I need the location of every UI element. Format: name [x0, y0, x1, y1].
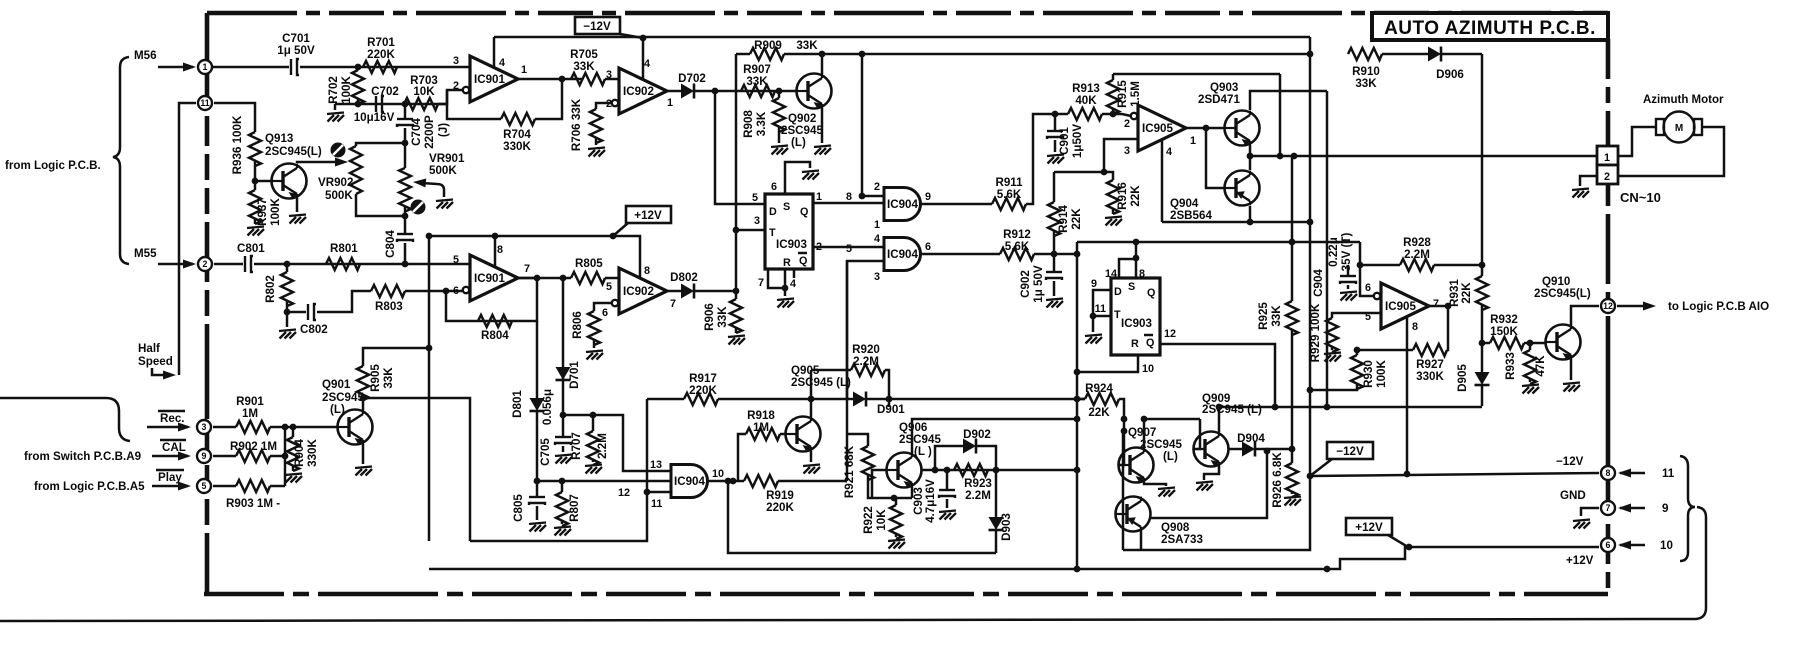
IC903a S pin loop to ground [785, 162, 810, 194]
AND gate IC904 (a) [846, 181, 931, 231]
svg-text:+12V: +12V [1566, 554, 1594, 567]
ground below R802 [286, 312, 289, 327]
svg-text:33K: 33K [1270, 305, 1283, 327]
svg-text:100K: 100K [1375, 360, 1388, 388]
wire motor to CN-10 pin2 [1618, 127, 1724, 176]
svg-text:R915: R915 [1116, 80, 1129, 108]
Q906 collector wire [912, 419, 1077, 453]
node 12 [1601, 299, 1615, 313]
svg-text:1M: 1M [242, 407, 258, 420]
svg-text:R914: R914 [1057, 205, 1070, 233]
vertical x470 from Q901 collector wire [363, 398, 470, 541]
svg-text:2: 2 [203, 259, 208, 269]
arrow half speed [152, 368, 170, 375]
arrow into node 2 [158, 263, 193, 266]
svg-text:5: 5 [202, 481, 207, 491]
svg-text:R902 1M: R902 1M [230, 440, 277, 453]
bus y238 [1077, 241, 1360, 244]
ground at CN-10 pin2 [1580, 176, 1597, 186]
svg-text:33K: 33K [716, 306, 729, 328]
svg-text:IC902: IC902 [623, 85, 654, 98]
svg-text:R707: R707 [570, 432, 583, 460]
svg-text:5.6K: 5.6K [997, 188, 1022, 201]
svg-text:R: R [1131, 338, 1139, 350]
capacitor C805 [536, 481, 539, 497]
node 7 [1601, 501, 1615, 515]
transistor Q905 [786, 417, 821, 453]
capacitor C702 [376, 96, 384, 112]
svg-text:6: 6 [925, 241, 931, 253]
svg-text:AUTO AZIMUTH P.C.B.: AUTO AZIMUTH P.C.B. [1384, 18, 1596, 39]
resistor R702 [357, 67, 360, 70]
svg-text:(L): (L) [791, 136, 806, 149]
svg-text:CN~10: CN~10 [1620, 190, 1661, 205]
capacitor C704 [404, 104, 407, 119]
svg-text:12: 12 [618, 487, 630, 499]
resistor R924 [1077, 398, 1085, 401]
-12V rail to node 8 [1310, 473, 1599, 476]
svg-text:0.056μ: 0.056μ [541, 389, 554, 425]
output wire IC902a [667, 90, 681, 93]
capacitor C902 [1051, 251, 1058, 258]
svg-text:R933: R933 [1504, 352, 1517, 380]
svg-text:R916: R916 [1116, 182, 1129, 210]
svg-text:500K: 500K [325, 189, 353, 202]
diode D905 [1475, 372, 1490, 385]
svg-text:4: 4 [1166, 146, 1172, 158]
svg-text:2: 2 [1124, 118, 1130, 130]
T input wire from R909/D802 junction vertical [735, 54, 738, 299]
resistor R806 [594, 303, 612, 311]
wire y407 to D905 [1219, 406, 1482, 409]
+12V supply label box right [1346, 518, 1408, 547]
svg-text:10: 10 [1660, 539, 1673, 552]
svg-text:7: 7 [1433, 298, 1439, 310]
transistor Q910 [1546, 325, 1581, 361]
svg-text:R909: R909 [754, 39, 782, 52]
svg-text:10μ16V: 10μ16V [354, 111, 395, 124]
svg-text:10: 10 [1142, 363, 1154, 375]
svg-text:GND: GND [1560, 489, 1586, 502]
+12V rail bottom [429, 547, 1599, 569]
IC905b output [1429, 305, 1448, 308]
border left dash-dot [205, 13, 210, 594]
svg-text:IC901: IC901 [474, 272, 505, 285]
resistor R706 [596, 103, 612, 109]
node 6 [1601, 538, 1615, 552]
+12V supply label box upper [610, 206, 671, 239]
vertical x647 R917 to y541 [470, 399, 647, 541]
svg-text:6: 6 [602, 307, 608, 319]
IC903a pin7 loop [768, 269, 785, 288]
svg-text:14: 14 [1105, 268, 1117, 280]
svg-text:C904: C904 [1312, 269, 1325, 297]
svg-text:C804: C804 [384, 230, 397, 258]
svg-text:4: 4 [790, 278, 796, 290]
node 8 [1601, 466, 1615, 480]
resistor R801 [326, 258, 360, 270]
svg-text:220K: 220K [367, 48, 395, 61]
junction verticals [284, 427, 287, 486]
title box AUTO AZIMUTH P.C.B. [1372, 13, 1608, 40]
svg-text:R906: R906 [703, 303, 716, 331]
Q907 collector [1144, 419, 1200, 448]
output wire IC902b [667, 290, 681, 293]
svg-text:2SD471: 2SD471 [1198, 93, 1240, 106]
ground Q901 emitter [362, 444, 365, 464]
resistor R915 [1112, 74, 1115, 80]
power lead IC901a [493, 37, 496, 68]
svg-text:D: D [769, 206, 777, 218]
svg-text:Speed: Speed [138, 355, 173, 368]
svg-text:9: 9 [925, 191, 931, 203]
brace pins group [1680, 456, 1695, 561]
svg-text:Half: Half [138, 342, 160, 355]
svg-text:D702: D702 [678, 72, 706, 85]
svg-text:9: 9 [202, 451, 207, 461]
svg-text:S: S [1128, 281, 1135, 293]
svg-text:R905: R905 [369, 364, 382, 392]
vertical x1280 [1279, 74, 1282, 156]
svg-text:6: 6 [1365, 282, 1371, 294]
svg-text:11: 11 [200, 98, 209, 108]
svg-text:2SA733: 2SA733 [1161, 533, 1203, 546]
svg-text:D905: D905 [1456, 364, 1469, 392]
svg-text:3: 3 [874, 271, 880, 283]
diode D701 [556, 367, 571, 380]
arrow into node 9 [152, 455, 188, 458]
svg-text:D: D [1114, 286, 1122, 298]
-12V rail top [494, 36, 1310, 39]
svg-text:D904: D904 [1237, 432, 1265, 445]
svg-text:6: 6 [1606, 540, 1611, 550]
resistor R905 [362, 394, 365, 410]
svg-text:500K: 500K [429, 164, 457, 177]
svg-text:Q901: Q901 [322, 378, 351, 391]
svg-text:C805: C805 [512, 494, 525, 522]
svg-text:VR902: VR902 [318, 176, 353, 189]
IC903b pin9/11 loop to ground [1093, 290, 1111, 316]
svg-text:3.3K: 3.3K [755, 111, 768, 136]
svg-text:Q913: Q913 [265, 132, 294, 145]
Q908 base wire [1122, 432, 1125, 550]
svg-text:R921 68K: R921 68K [843, 445, 856, 498]
svg-text:2SC945(L): 2SC945(L) [265, 145, 322, 158]
svg-text:3: 3 [453, 55, 459, 67]
resistor R918 [738, 434, 746, 481]
svg-text:8: 8 [497, 244, 503, 256]
svg-text:1: 1 [1190, 135, 1196, 147]
svg-text:T: T [1114, 309, 1121, 321]
svg-text:100K: 100K [340, 76, 353, 104]
svg-text:100K: 100K [269, 198, 282, 226]
capacitor C903 [946, 470, 949, 490]
potentiometer VR901 [402, 140, 409, 147]
svg-text:2: 2 [453, 80, 459, 92]
svg-text:1μ50V: 1μ50V [1071, 124, 1084, 158]
IC903b pin14/8 loop [1119, 259, 1136, 278]
IC903b Qbar pin12 wire [1160, 344, 1275, 407]
svg-text:5: 5 [453, 254, 459, 266]
Q909 emitter ground [1204, 466, 1219, 480]
wire C701 to IC901 pin3 [300, 66, 470, 69]
svg-text:3: 3 [606, 69, 612, 81]
svg-text:3: 3 [1124, 145, 1130, 157]
arrow 10 [1620, 544, 1645, 547]
svg-text:4: 4 [874, 233, 880, 245]
wire y104 [335, 103, 447, 106]
wire from left with hook [0, 398, 130, 441]
node 2 [198, 257, 212, 271]
svg-text:2SC945(L): 2SC945(L) [1534, 287, 1591, 300]
svg-text:C802: C802 [300, 323, 328, 336]
node 11 [198, 96, 212, 110]
node dot [355, 64, 362, 71]
resistor R902 [213, 455, 236, 458]
arrow into node 5 [152, 485, 188, 488]
svg-text:C902: C902 [1019, 270, 1032, 298]
svg-text:from Switch P.C.B.A9: from Switch P.C.B.A9 [24, 450, 142, 463]
svg-text:CAL: CAL [162, 441, 186, 454]
resistor R925 [1291, 242, 1294, 301]
svg-text:D903: D903 [1000, 513, 1013, 541]
svg-text:1: 1 [203, 62, 208, 72]
power lead IC902a [642, 38, 645, 79]
resistor R922 [894, 498, 896, 505]
gate c output [708, 480, 744, 483]
power lead IC901b [494, 236, 497, 267]
svg-text:11: 11 [1095, 303, 1106, 315]
svg-text:8: 8 [644, 265, 650, 277]
svg-text:R806: R806 [571, 311, 584, 339]
svg-text:D902: D902 [963, 428, 991, 441]
svg-text:+12V: +12V [1355, 521, 1383, 534]
svg-text:4: 4 [499, 57, 505, 69]
svg-text:1M: 1M [753, 421, 769, 434]
svg-text:1μ 50V: 1μ 50V [277, 44, 315, 57]
resistor R910 [1348, 48, 1382, 60]
svg-text:6: 6 [453, 285, 459, 297]
svg-text:IC904: IC904 [674, 475, 705, 488]
ground left of C702 [334, 104, 337, 110]
resistor R931 [1476, 276, 1488, 310]
svg-text:33K: 33K [573, 60, 595, 73]
resistor R933 [1527, 340, 1534, 347]
svg-text:9: 9 [1662, 502, 1669, 515]
svg-text:330K: 330K [1416, 370, 1444, 383]
svg-text:11: 11 [651, 498, 662, 510]
ground at node 7 [1581, 508, 1599, 516]
diode D801 [536, 321, 539, 398]
arrow into node 1 [158, 66, 193, 69]
svg-text:(L ): (L ) [914, 445, 932, 458]
wire y470 Q906 to right [922, 469, 1077, 472]
Q908 bottom to rail [1140, 531, 1143, 550]
svg-text:R936 100K: R936 100K [231, 115, 244, 174]
diode D902 bridge [935, 446, 963, 470]
resistor R807 [561, 481, 564, 492]
svg-text:to Logic P.C.B AIO: to Logic P.C.B AIO [1668, 300, 1769, 313]
resistor R805 [571, 272, 605, 284]
-12V vertical bus [1309, 37, 1312, 476]
capacitor C801 [245, 256, 253, 272]
svg-text:33K: 33K [382, 367, 395, 389]
resistor R802 [286, 264, 289, 272]
svg-text:(L): (L) [1163, 450, 1178, 463]
svg-text:2SB564: 2SB564 [1170, 209, 1212, 222]
wire y415 to gate pin13 [563, 415, 671, 471]
transistor Q902 [797, 74, 832, 110]
svg-text:D701: D701 [568, 361, 581, 389]
+12V rail upper [429, 236, 640, 279]
svg-text:1: 1 [667, 97, 673, 109]
Q903/Q904 emitter junction to CN-10 [1249, 145, 1252, 170]
adjustment screw dot 2 [411, 200, 426, 215]
svg-text:220K: 220K [689, 384, 717, 397]
svg-text:IC905: IC905 [1385, 300, 1416, 313]
svg-text:R924: R924 [1085, 382, 1113, 395]
IC905a output to transistor bases [1186, 127, 1224, 130]
resistor R906 [730, 299, 742, 333]
wire node11 down-left [179, 103, 196, 375]
brace from Logic PCB [113, 57, 129, 264]
svg-text:12: 12 [1164, 328, 1176, 340]
capacitor C901 [1052, 111, 1059, 118]
svg-text:35V (T): 35V (T) [1340, 233, 1353, 272]
node 5 [197, 479, 211, 493]
IC905a pin4 wire [1161, 140, 1164, 222]
IC903a pin4 stub [793, 269, 796, 278]
svg-text:−12V: −12V [1336, 445, 1364, 458]
wire R915 top [1113, 73, 1280, 76]
Q909 collector [1218, 407, 1221, 432]
svg-text:C704: C704 [410, 118, 423, 146]
resistor R914 [1053, 172, 1056, 202]
resistor R705 [571, 73, 605, 85]
svg-text:Rec.: Rec. [160, 412, 185, 425]
svg-text:8: 8 [1139, 268, 1145, 280]
resistor R926 [1286, 463, 1298, 497]
svg-text:IC905: IC905 [1142, 122, 1173, 135]
op-amp IC902 (b) [602, 265, 676, 319]
svg-text:Q: Q [799, 255, 807, 267]
azimuth motor M [1656, 112, 1702, 143]
svg-text:IC903: IC903 [1121, 317, 1152, 330]
resistor R913 [1068, 108, 1102, 120]
gate c pin 11 wire [647, 491, 671, 494]
svg-text:D801: D801 [511, 390, 524, 418]
svg-text:C801: C801 [237, 242, 265, 255]
svg-text:330K: 330K [503, 140, 531, 153]
wire node1 to C701 [213, 66, 289, 69]
svg-text:Q: Q [800, 206, 808, 218]
vertical from R909 junction to gate a [862, 54, 884, 196]
svg-text:R930: R930 [1362, 360, 1375, 388]
vertical x847 gate b to R919 [846, 261, 849, 481]
resistor R904 [290, 424, 297, 431]
svg-text:1.5M: 1.5M [1129, 81, 1142, 107]
arrow 9 [1620, 507, 1645, 510]
svg-text:22K: 22K [1460, 282, 1473, 304]
svg-text:6: 6 [771, 181, 777, 193]
Q902 collector to R909 wire [821, 54, 824, 74]
transistor Q904 [1225, 171, 1260, 206]
svg-text:R807: R807 [568, 494, 581, 522]
-12V supply label box right [1310, 442, 1373, 476]
op-amp IC901 (b) [453, 244, 530, 301]
transistor Q903 [1225, 111, 1260, 147]
transistor Q906 [887, 453, 922, 489]
vertical bus x429 [428, 236, 431, 541]
svg-text:10: 10 [712, 468, 724, 480]
svg-text:R904: R904 [293, 439, 306, 467]
svg-text:R922: R922 [862, 506, 875, 534]
diode D903 [995, 470, 998, 517]
svg-text:1: 1 [816, 191, 822, 203]
op-amp IC905 (a) [1124, 105, 1196, 158]
resistor R937 [254, 181, 257, 190]
bus from IC901b output down [562, 278, 565, 415]
svg-text:1: 1 [874, 219, 880, 231]
svg-text:10K: 10K [875, 509, 888, 531]
arrow 11 [1620, 472, 1645, 475]
bottom loop wire y553 [728, 481, 996, 553]
bus x1077 [1076, 242, 1079, 569]
svg-text:R801: R801 [330, 242, 358, 255]
svg-text:−12V: −12V [1556, 455, 1584, 468]
bottom thin line with right loop [0, 507, 1706, 621]
output wire IC901a [518, 78, 583, 81]
node 9 [197, 449, 211, 463]
rail y550 to -12V bus [1123, 476, 1310, 550]
gate a output and resistor R911 [921, 203, 992, 206]
node 3 [197, 420, 211, 434]
svg-text:330K: 330K [306, 439, 319, 467]
svg-text:IC903: IC903 [776, 238, 807, 251]
flip-flop IC903 (b) [1091, 268, 1176, 375]
node 1 [198, 60, 212, 74]
svg-text:R: R [783, 257, 791, 269]
wire C802 to R803 [317, 291, 371, 312]
svg-text:−12V: −12V [583, 20, 611, 33]
resistor R919 [744, 475, 778, 487]
resistor R928 [1360, 242, 1374, 296]
wire node11 right to R936 [214, 103, 255, 132]
svg-text:7: 7 [758, 277, 764, 289]
svg-text:22K: 22K [1088, 406, 1110, 419]
capacitor C802 [287, 311, 306, 314]
svg-text:2: 2 [1604, 171, 1610, 183]
svg-text:47K: 47K [1534, 355, 1547, 377]
Q output wire to gate a [813, 202, 884, 205]
svg-text:Azimuth Motor: Azimuth Motor [1643, 94, 1724, 106]
svg-text:2.2M: 2.2M [1404, 248, 1430, 261]
svg-text:3: 3 [754, 215, 760, 227]
svg-text:11: 11 [1662, 467, 1675, 480]
svg-text:R925: R925 [1257, 302, 1270, 330]
ground Q902 emitter [821, 108, 824, 143]
diode D802 [681, 284, 694, 299]
svg-text:R805: R805 [575, 257, 603, 270]
IC903b pin10 wire [1077, 355, 1138, 372]
transistor Q909 [1194, 432, 1229, 468]
Q906 emitter [911, 487, 914, 498]
svg-text:D901: D901 [877, 403, 905, 416]
svg-text:Q: Q [1147, 287, 1155, 299]
border top dash-dot [207, 11, 1608, 16]
svg-text:2.2M: 2.2M [965, 489, 991, 502]
pin5 wire and resistor R929 [1332, 313, 1381, 318]
